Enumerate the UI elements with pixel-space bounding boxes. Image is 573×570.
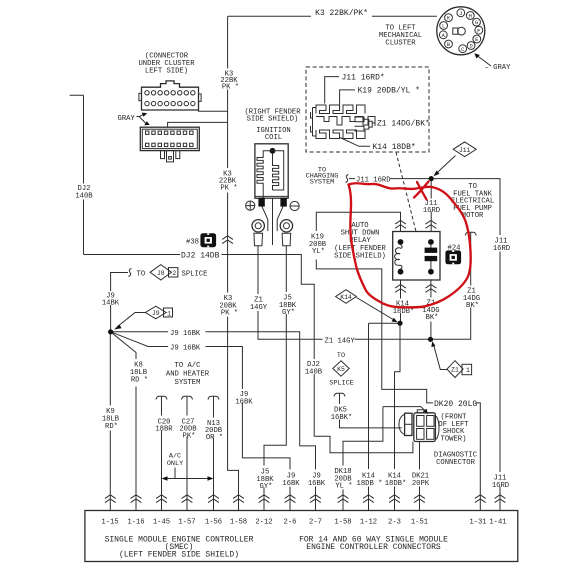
ignition coil primary winding xyxy=(257,151,273,198)
chevron on K3 wire xyxy=(222,236,233,244)
svg-text:ENGINE CONTROLLER CONNECTORS: ENGINE CONTROLLER CONNECTORS xyxy=(306,543,441,552)
wire DK5 16BK to diagnostic connector xyxy=(340,401,402,428)
svg-text:LEFT SIDE): LEFT SIDE) xyxy=(145,68,188,76)
dashed leader from inset box to relay xyxy=(396,152,416,232)
leader line Z1 14DG/BK* in dashed box xyxy=(372,122,375,124)
svg-text:TOWER): TOWER) xyxy=(441,435,467,443)
svg-text:16RD: 16RD xyxy=(423,207,440,215)
svg-text:16BK*: 16BK* xyxy=(331,414,353,422)
svg-text:18DB*: 18DB* xyxy=(393,308,415,316)
wire C27 20DB PK to pin 1-57 xyxy=(186,403,188,511)
svg-text:1-56: 1-56 xyxy=(205,519,222,527)
relay contact bars xyxy=(430,244,432,270)
wire DK21 20PK diagnostic connector to pin 1-51 xyxy=(419,442,421,511)
svg-text:SPLICE: SPLICE xyxy=(182,271,208,279)
svg-text:1-16: 1-16 xyxy=(127,519,144,527)
svg-text:18DB*: 18DB* xyxy=(385,480,407,488)
connector symbol #24 xyxy=(445,250,461,264)
junction dot Z1 xyxy=(428,337,433,342)
svg-text:PK *: PK * xyxy=(222,84,239,92)
diamond reference J11 xyxy=(453,142,476,157)
circular connector to left mechanical cluster xyxy=(437,7,485,55)
svg-text:CLUSTER: CLUSTER xyxy=(385,40,416,48)
connector under cluster upper pin circles row 2 xyxy=(145,101,195,105)
svg-text:H: H xyxy=(469,14,472,20)
red hand-drawn loop around auto shutdown relay xyxy=(349,183,471,307)
relay coil pins xyxy=(398,239,404,245)
svg-text:14BK: 14BK xyxy=(102,300,120,308)
svg-text:2-6: 2-6 xyxy=(284,519,297,527)
svg-text:#38: #38 xyxy=(186,239,199,247)
connector under cluster lower body xyxy=(140,127,199,150)
svg-text:2: 2 xyxy=(172,270,176,277)
svg-text:D: D xyxy=(469,44,472,50)
wire upper cluster connector to K3 xyxy=(199,109,228,112)
svg-text:J8: J8 xyxy=(157,270,165,277)
wire Z1 14DG/BK relay contact bottom to Z1 junction xyxy=(430,280,432,339)
svg-text:16BK: 16BK xyxy=(282,480,300,488)
dashed detail box xyxy=(306,67,429,152)
svg-text:K5: K5 xyxy=(337,366,345,373)
svg-text:– GRAY: – GRAY xyxy=(485,64,512,72)
wire DK20 label arrow into diagnostic connector xyxy=(423,409,428,415)
wire J9 14BK to splice label xyxy=(111,273,128,332)
svg-text:SIDE SHIELD): SIDE SHIELD) xyxy=(247,116,299,124)
relay coil winding xyxy=(395,245,403,270)
diamond reference Z1 with box 1 xyxy=(447,361,472,378)
junction dot J9 splice xyxy=(108,329,113,334)
svg-text:2-12: 2-12 xyxy=(255,519,272,527)
svg-text:Z1 14DG/BK*: Z1 14DG/BK* xyxy=(377,120,430,129)
ignition coil inner bottom line xyxy=(255,195,288,197)
leader line J11 16RD* in dashed box xyxy=(325,77,339,104)
connector under cluster upper left bump xyxy=(139,93,142,100)
pigtail C27 xyxy=(182,396,193,403)
circular connector center keyway xyxy=(453,28,458,34)
wire DK18 20DB/YL branch to pin 1-58 and diagnostic connector arrow xyxy=(343,407,421,511)
svg-text:J9 16BK: J9 16BK xyxy=(170,345,201,353)
svg-text:CONNECTOR: CONNECTOR xyxy=(436,459,476,467)
svg-text:Z1: Z1 xyxy=(451,367,459,374)
svg-text:E: E xyxy=(475,37,478,43)
wire J11 16RD down to relay contact xyxy=(430,179,432,232)
wire N13 20DB OR to pin 1-56 xyxy=(213,403,215,511)
wire K14 18DB relay coil bottom to junction dot xyxy=(400,280,402,323)
svg-text:1-41: 1-41 xyxy=(489,519,506,527)
svg-text:1: 1 xyxy=(466,367,470,374)
svg-text:K3 22BK/PK*: K3 22BK/PK* xyxy=(315,9,368,18)
gray arrows to cluster connectors xyxy=(137,114,147,124)
gray arrow to circular connector xyxy=(477,56,491,67)
diamond reference J9 with box 1 xyxy=(145,306,172,319)
svg-text:RD *: RD * xyxy=(131,377,148,385)
pigtail DK5 xyxy=(334,393,345,400)
svg-text:1-31: 1-31 xyxy=(469,519,486,527)
relay terminal meander pattern in dashed box xyxy=(311,105,376,139)
RED ANNOTATION xyxy=(349,182,471,308)
svg-text:20PK: 20PK xyxy=(412,480,430,488)
wire DJ2 140B left vertical with stub xyxy=(70,95,84,254)
svg-text:J11: J11 xyxy=(459,147,471,154)
svg-text:16BK: 16BK xyxy=(308,480,326,488)
svg-text:16RD: 16RD xyxy=(493,245,510,253)
pigtail C20 xyxy=(156,396,167,403)
wire K3 vertical main run xyxy=(228,16,239,510)
squiggle at J8 splice leader xyxy=(129,269,132,277)
svg-text:TO: TO xyxy=(337,352,345,360)
svg-text:BK*: BK* xyxy=(466,302,479,310)
red slash mark on top stroke xyxy=(414,182,429,198)
wire K14 18DB junction to pin 1-12 xyxy=(369,323,401,510)
connector under cluster upper right bump xyxy=(199,94,202,101)
svg-text:K14: K14 xyxy=(340,294,352,301)
svg-text:TO A/C: TO A/C xyxy=(175,362,202,370)
wire J9 16BK lower horizontal to pin 2-6 xyxy=(111,332,290,511)
svg-text:SIDE SHIELD): SIDE SHIELD) xyxy=(334,252,386,260)
junction dot K14 xyxy=(397,321,402,326)
svg-text:TO: TO xyxy=(137,271,146,279)
wire J11 16RD horizontal from charging system to right vertical xyxy=(349,179,500,511)
connector symbol #38 xyxy=(200,233,216,247)
svg-text:#24: #24 xyxy=(448,245,461,253)
svg-text:PK *: PK * xyxy=(221,310,238,318)
chevron above relay coil xyxy=(395,221,406,229)
ring terminal right (J5) xyxy=(280,220,292,232)
svg-text:SYSTEM: SYSTEM xyxy=(175,379,201,387)
auto shutdown relay box xyxy=(393,232,440,281)
junction dot J11 xyxy=(429,176,434,181)
svg-text:16BK: 16BK xyxy=(235,398,253,406)
svg-text:YL *: YL * xyxy=(335,483,352,491)
ignition coil tower funnel xyxy=(262,198,283,245)
svg-text:18BR: 18BR xyxy=(155,426,173,434)
svg-text:14GY: 14GY xyxy=(250,304,268,312)
svg-text:J: J xyxy=(459,11,462,17)
chevrons at SMEC connector entries xyxy=(105,495,506,503)
wire DJ2 14DB horizontal and route to diagnostic connector xyxy=(84,255,413,453)
leader line K19 20DB/YL* in dashed box xyxy=(340,90,355,111)
wire K8 18LB RD to pin 1-16 xyxy=(111,332,136,511)
ignition coil box xyxy=(255,144,288,198)
wire C20 18BR to pin 1-45 xyxy=(161,403,163,511)
chevron above relay contact xyxy=(426,221,437,229)
svg-text:1-57: 1-57 xyxy=(178,519,195,527)
svg-text:OR *: OR * xyxy=(206,434,223,442)
svg-text:BK*: BK* xyxy=(426,314,439,322)
wire Z1 14GY coil positive down and horizontal xyxy=(258,240,471,340)
diagnostic connector body xyxy=(399,410,439,442)
wire DK20 20LG to pin 1-31 xyxy=(476,403,481,511)
svg-text:K19 20DB/YL *: K19 20DB/YL * xyxy=(358,87,420,96)
SMEC connector box xyxy=(85,511,518,562)
connector under cluster lower mounting tabs xyxy=(161,151,165,159)
wire K9 18LB RD to pin 1-15 xyxy=(109,332,111,511)
svg-text:ONLY: ONLY xyxy=(167,460,183,468)
svg-text:GY*: GY* xyxy=(282,309,295,317)
svg-text:1-45: 1-45 xyxy=(153,519,170,527)
svg-text:PK*: PK* xyxy=(183,433,196,441)
svg-text:AND HEATER: AND HEATER xyxy=(166,371,210,379)
circular connector pins with letters xyxy=(439,9,482,53)
connector under cluster lower pin squares row 1 xyxy=(146,131,194,134)
svg-text:PK *: PK * xyxy=(220,185,237,193)
svg-text:C: C xyxy=(461,47,464,53)
svg-text:1-58: 1-58 xyxy=(334,519,351,527)
svg-text:GY*: GY* xyxy=(260,483,273,491)
ignition coil secondary winding xyxy=(273,154,279,191)
svg-text:2-7: 2-7 xyxy=(309,519,322,527)
connector under cluster upper pin circles row 1 xyxy=(145,91,195,95)
svg-text:(LEFT FENDER SIDE SHIELD): (LEFT FENDER SIDE SHIELD) xyxy=(119,551,239,560)
svg-text:140B: 140B xyxy=(75,193,93,201)
squiggle at J11 16RD charging leader xyxy=(346,175,349,183)
svg-text:DK20 20LG: DK20 20LG xyxy=(434,400,477,409)
wire lower cluster connector to K3 xyxy=(168,122,228,127)
chevron below relay contact xyxy=(426,285,437,293)
connector under cluster lower pin squares row 2 xyxy=(146,143,194,146)
ignition coil top junction dot xyxy=(270,148,276,154)
wire K3 22BK/PK top horizontal to mechanical cluster xyxy=(228,15,311,17)
svg-text:1: 1 xyxy=(167,310,171,317)
svg-text:DJ2 14DB: DJ2 14DB xyxy=(181,251,220,260)
wire A/C ONLY span arrow xyxy=(165,468,211,479)
diamond reference J8 splice with box 2 xyxy=(150,265,178,280)
svg-text:F: F xyxy=(477,28,480,34)
wire arrow from K14 reference to junction xyxy=(357,298,395,321)
svg-text:L: L xyxy=(442,24,445,30)
chevron below relay coil xyxy=(395,285,406,293)
leader line K14 18DB* in dashed box xyxy=(340,138,370,147)
wire arrow from J11 reference to junction xyxy=(436,156,456,174)
svg-text:J9: J9 xyxy=(152,310,160,317)
ignition coil terminals xyxy=(258,198,264,207)
svg-text:J11 16RD*: J11 16RD* xyxy=(342,74,385,83)
svg-text:1-15: 1-15 xyxy=(101,519,118,527)
wire K19 20DB/YL relay coil loop xyxy=(316,212,433,403)
pigtail fuel pump Z1 xyxy=(465,232,476,239)
diamond reference K5 xyxy=(333,361,349,376)
svg-text:YL*: YL* xyxy=(312,248,325,256)
pigtail N13 xyxy=(208,396,219,403)
connector under cluster upper body xyxy=(142,81,199,110)
svg-text:1-51: 1-51 xyxy=(411,519,428,527)
svg-text:G: G xyxy=(475,20,478,26)
svg-text:RD*: RD* xyxy=(105,423,118,431)
svg-text:K14 18DB*: K14 18DB* xyxy=(373,143,416,152)
svg-text:16RD: 16RD xyxy=(492,482,509,490)
wire J5 18BK GY coil negative to pin 2-12 xyxy=(264,246,286,511)
svg-text:18DB *: 18DB * xyxy=(357,480,383,488)
diamond reference K14 xyxy=(336,290,357,304)
relay contact pins xyxy=(428,239,434,245)
svg-text:J9 16BK: J9 16BK xyxy=(170,330,201,338)
svg-text:2-3: 2-3 xyxy=(388,519,401,527)
ignition coil plus symbol xyxy=(246,201,255,210)
svg-text:Z1 14GY: Z1 14GY xyxy=(325,337,356,345)
pin number labels xyxy=(101,519,506,527)
svg-text:COIL: COIL xyxy=(265,134,282,142)
svg-text:1-58: 1-58 xyxy=(230,519,247,527)
svg-text:SPLICE: SPLICE xyxy=(329,380,353,388)
svg-text:1-12: 1-12 xyxy=(360,519,377,527)
wire arrow from J9-1 reference to junction xyxy=(117,313,146,328)
ring terminal left (Z1) xyxy=(252,220,264,232)
wire J9 16BK upper horizontal to pin 2-7 xyxy=(111,332,316,511)
wire arrow from Z1-1 reference to Z1 junction xyxy=(434,345,448,370)
svg-text:140B: 140B xyxy=(305,368,323,376)
wire K14 18DB junction to pin 2-3 xyxy=(395,323,401,510)
ignition coil minus symbol xyxy=(290,201,299,210)
svg-text:GRAY: GRAY xyxy=(118,115,136,123)
svg-text:SYSTEM: SYSTEM xyxy=(310,179,334,187)
